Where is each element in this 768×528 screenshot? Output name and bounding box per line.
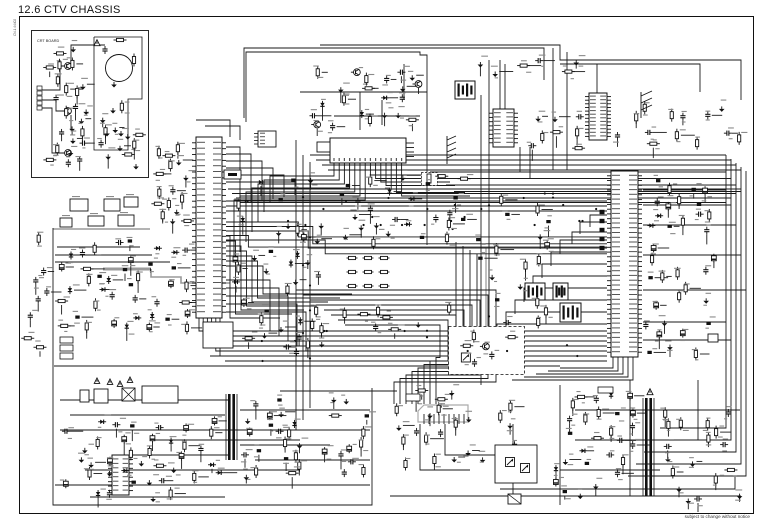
wire: [196, 120, 230, 137]
wire: [226, 161, 262, 201]
wire: [242, 268, 247, 270]
value label: [445, 302, 451, 303]
value label: [312, 184, 317, 185]
resistor R132: [329, 414, 342, 417]
ground: [314, 239, 320, 245]
wire: [307, 348, 309, 358]
wire: [310, 300, 480, 404]
wire: [391, 78, 397, 80]
wire: [77, 137, 82, 139]
value label: [125, 112, 130, 113]
junction: [302, 196, 304, 198]
value label: [365, 177, 371, 178]
value label: [559, 126, 564, 127]
value label: [593, 395, 598, 396]
value label: [294, 462, 298, 463]
wire: [617, 140, 619, 147]
value label: [122, 128, 129, 129]
junction: [595, 208, 597, 210]
value label: [120, 418, 126, 419]
wire: [511, 213, 520, 215]
diode D6: [154, 246, 162, 250]
value label: [135, 129, 140, 130]
diode D3: [69, 251, 73, 259]
value label: [507, 430, 512, 431]
resistor R50: [260, 313, 263, 326]
wire: [226, 266, 352, 294]
value label: [659, 315, 666, 316]
value label: [510, 331, 515, 332]
value label: [100, 283, 105, 284]
value label: [340, 309, 345, 310]
value label: [250, 400, 255, 401]
value label: [582, 402, 585, 403]
junction: [562, 204, 564, 206]
capacitor C71: [62, 429, 70, 434]
junction: [294, 340, 296, 342]
resistor R43: [151, 202, 164, 205]
wire: [555, 136, 557, 148]
capacitor C105: [567, 416, 572, 424]
wire: [322, 71, 328, 73]
diode D23: [320, 101, 324, 109]
value label: [278, 405, 282, 406]
component (dark): [277, 398, 281, 401]
resistor R42: [153, 172, 166, 175]
wire: [270, 340, 607, 342]
wire: [438, 178, 731, 180]
value label: [705, 221, 710, 222]
resistor R110: [505, 336, 518, 339]
value label: [125, 432, 130, 433]
wire: [71, 130, 73, 134]
value label: [682, 111, 687, 112]
resistor R17: [37, 232, 40, 245]
wire: [71, 45, 105, 62]
wire: [296, 290, 496, 404]
resistor R105: [670, 109, 673, 122]
value label: [313, 120, 318, 121]
capacitor C103: [630, 423, 635, 431]
resistor R130: [294, 450, 297, 463]
value label: [341, 461, 346, 462]
value label: [86, 322, 92, 323]
capacitor C19: [182, 248, 190, 253]
electrolytic capacitor C81: [63, 479, 68, 488]
value label: [733, 476, 737, 477]
value label: [129, 334, 135, 335]
value label: [692, 349, 698, 350]
wire: [542, 209, 553, 211]
value label: [537, 253, 543, 254]
wire: [479, 66, 481, 76]
ground: [150, 497, 156, 503]
component (dark): [495, 298, 499, 301]
wire: [226, 175, 284, 197]
value label: [400, 182, 404, 183]
ground: [83, 109, 89, 115]
value label: [465, 340, 472, 341]
junction: [467, 350, 469, 352]
electrolytic capacitor C25: [59, 262, 64, 271]
value label: [617, 435, 622, 436]
value label: [359, 464, 364, 465]
value label: [218, 468, 225, 469]
value label: [159, 157, 162, 158]
value label: [32, 310, 38, 311]
wire: [432, 183, 438, 185]
capacitor C40: [704, 227, 709, 235]
wire: [331, 315, 456, 404]
value label: [78, 453, 85, 454]
wire: [687, 503, 689, 510]
resistor R33: [181, 219, 194, 222]
value label: [166, 476, 172, 477]
value label: [441, 415, 446, 416]
ground: [518, 284, 524, 290]
value label: [365, 118, 370, 119]
diode D19: [655, 214, 663, 218]
value label: [147, 445, 152, 446]
resistor R144: [433, 453, 436, 466]
wire: [226, 241, 292, 314]
capacitor C99: [594, 395, 599, 403]
electrolytic capacitor C75: [184, 423, 189, 432]
resistor R156: [671, 466, 674, 479]
resistor R26: [94, 298, 97, 311]
ground: [665, 457, 671, 463]
resistor R134: [286, 472, 299, 475]
wire: [85, 469, 300, 471]
value label: [97, 255, 102, 256]
wire: [655, 277, 669, 279]
wire: [496, 354, 506, 356]
ground: [245, 419, 251, 425]
value label: [391, 238, 395, 239]
value label: [470, 444, 476, 445]
wire: [236, 197, 731, 199]
wire: [467, 218, 477, 220]
wire: [248, 302, 254, 304]
value label: [79, 103, 86, 104]
wire: [119, 127, 124, 129]
junction: [454, 204, 456, 206]
resistor R12: [122, 153, 135, 156]
value label: [654, 175, 658, 176]
electrolytic capacitor C97: [631, 409, 636, 418]
component (dark): [279, 198, 283, 201]
wire: [90, 496, 225, 498]
wire: [240, 409, 370, 411]
antenna marks 2: [641, 91, 652, 118]
component (dark): [505, 213, 509, 216]
value label: [38, 275, 42, 276]
value label: [87, 105, 93, 106]
wire: [455, 202, 457, 213]
wire: [490, 345, 498, 347]
value label: [97, 138, 102, 139]
diode D14: [232, 280, 240, 284]
capacitor C74: [112, 422, 120, 427]
value label: [431, 224, 434, 225]
value label: [151, 296, 156, 297]
value label: [328, 445, 334, 446]
IC U101 microcontroller: [192, 137, 226, 318]
transistor Q4: [351, 69, 360, 76]
diode D5: [68, 286, 72, 294]
value label: [404, 435, 409, 436]
resistor R162: [707, 432, 710, 445]
capacitor C10: [44, 288, 49, 296]
value label: [579, 66, 584, 67]
value label: [85, 112, 89, 113]
wire: [291, 477, 293, 489]
value label: [350, 209, 356, 210]
wire: [226, 210, 607, 212]
junction: [488, 204, 490, 206]
wire: [334, 115, 420, 117]
module M4: [88, 216, 104, 226]
resistor R10: [58, 59, 61, 72]
value label: [302, 438, 309, 439]
wire: [678, 204, 680, 209]
wire: [250, 330, 607, 332]
wire: [113, 279, 124, 281]
ground: [573, 60, 579, 66]
diode D13: [298, 317, 302, 325]
wire: [536, 357, 623, 374]
connector CN4: [60, 353, 73, 359]
electrolytic capacitor C30: [242, 298, 247, 307]
value label: [53, 155, 58, 156]
transistor Q1: [62, 63, 71, 70]
diode D20: [647, 223, 655, 227]
resistor R117: [153, 464, 166, 467]
value label: [609, 426, 615, 427]
wire: [226, 147, 240, 205]
value label: [566, 428, 572, 429]
wire: [376, 171, 445, 179]
wire: [226, 205, 607, 207]
value label: [133, 458, 137, 459]
electrolytic capacitor C86: [267, 411, 272, 420]
capacitor C95: [438, 429, 443, 437]
ground: [409, 75, 415, 81]
wire: [529, 147, 531, 178]
junction: [523, 197, 525, 199]
value label: [150, 271, 154, 272]
value label: [77, 87, 82, 88]
value label: [75, 156, 80, 157]
wire: [129, 245, 131, 251]
value label: [71, 146, 77, 147]
wire: [348, 98, 356, 100]
value label: [466, 411, 473, 412]
value label: [552, 112, 557, 113]
value label: [509, 400, 515, 401]
diode D26: [208, 463, 216, 467]
value label: [569, 454, 574, 455]
wire: [85, 118, 91, 120]
wire: [285, 199, 295, 201]
wire: [75, 112, 77, 121]
value label: [216, 460, 220, 461]
wire: [667, 429, 669, 437]
value label: [247, 479, 250, 480]
value label: [155, 146, 160, 147]
value label: [706, 119, 710, 120]
ground: [262, 333, 268, 339]
diode D29: [216, 471, 224, 475]
value label: [86, 274, 92, 275]
capacitor C80: [156, 425, 164, 430]
value label: [149, 320, 156, 321]
value label: [359, 67, 363, 68]
value label: [154, 423, 158, 424]
wire: [559, 116, 571, 118]
wire: [545, 315, 547, 324]
capacitor C36: [373, 323, 378, 331]
value label: [316, 319, 320, 320]
junction: [463, 216, 465, 218]
ground: [465, 451, 471, 457]
electrolytic capacitor C49: [654, 301, 659, 310]
wire: [643, 289, 746, 291]
wire: [150, 268, 152, 272]
resistor R74: [536, 203, 539, 216]
value label: [652, 126, 657, 127]
wire: [211, 469, 213, 473]
wire: [310, 154, 726, 156]
resistor R60: [347, 270, 358, 273]
wire: [88, 142, 95, 144]
value label: [167, 498, 173, 499]
wire: [585, 396, 595, 398]
ground: [466, 417, 472, 423]
value label: [606, 388, 612, 389]
value label: [184, 225, 189, 226]
resistor R80: [661, 270, 664, 283]
value label: [634, 419, 638, 420]
wire: [402, 171, 470, 196]
diode D16: [387, 188, 391, 196]
value label: [704, 185, 711, 186]
value label: [536, 264, 541, 265]
IC U601 PWM regulator: [108, 455, 133, 495]
wire: [652, 148, 654, 158]
electrolytic capacitor C90: [322, 447, 327, 456]
wire: [443, 408, 453, 410]
wire: [226, 154, 251, 203]
value label: [182, 441, 187, 442]
capacitor C3xx: [600, 246, 605, 250]
wire: [191, 285, 200, 287]
value label: [689, 457, 694, 458]
wire: [564, 496, 566, 500]
ground: [478, 62, 484, 67]
value label: [177, 263, 182, 264]
resistor R6: [76, 85, 79, 98]
capacitor C68: [294, 348, 299, 356]
wire: [285, 411, 295, 413]
ground: [174, 210, 180, 216]
value label: [481, 252, 485, 253]
wire: [240, 444, 330, 446]
junction: [309, 284, 311, 286]
value label: [342, 95, 349, 96]
value label: [88, 444, 94, 445]
resistor R111: [472, 330, 475, 343]
wire: [643, 254, 741, 256]
wire: [235, 286, 237, 293]
component (dark): [568, 432, 572, 435]
capacitor C109: [720, 442, 728, 447]
warning symbol: [94, 378, 100, 384]
resistor R79: [524, 259, 527, 272]
value label: [683, 430, 689, 431]
value label: [130, 255, 136, 256]
resistor R157: [664, 407, 667, 420]
value label: [495, 350, 500, 351]
wire: [205, 126, 240, 140]
wire: [126, 331, 128, 341]
value label: [526, 72, 531, 73]
wire: [552, 48, 554, 170]
ground: [667, 345, 673, 351]
wire: [667, 210, 669, 217]
capacitor C72: [107, 490, 112, 498]
value label: [386, 102, 392, 103]
wire: [322, 164, 736, 166]
value label: [293, 450, 299, 451]
wire: [480, 95, 482, 385]
value label: [239, 224, 245, 225]
capacitor C8: [28, 312, 33, 320]
value label: [610, 438, 615, 439]
value label: [405, 458, 410, 459]
capacitor C26: [170, 187, 175, 195]
wire: [183, 159, 194, 161]
value label: [285, 283, 292, 284]
value label: [115, 238, 121, 239]
wire: [488, 336, 607, 350]
capacitor C32: [355, 197, 360, 205]
resistor R66: [343, 307, 346, 320]
value label: [524, 278, 528, 279]
wire: [105, 135, 107, 144]
value label: [645, 102, 649, 103]
wire: [652, 159, 731, 440]
value label: [378, 332, 382, 333]
value label: [270, 430, 273, 431]
wire: [720, 431, 731, 433]
value label: [100, 123, 105, 124]
value label: [156, 433, 160, 434]
value label: [131, 149, 135, 150]
wire: [274, 415, 287, 417]
value label: [192, 470, 198, 471]
capacitor C54: [397, 70, 405, 75]
value label: [735, 489, 742, 490]
transistor Q10: [521, 464, 530, 473]
diode D28: [98, 420, 106, 424]
value label: [630, 451, 633, 452]
wire: [373, 87, 379, 89]
wire: [280, 345, 607, 347]
value label: [513, 456, 519, 457]
value label: [72, 196, 80, 197]
wire: [57, 246, 140, 248]
